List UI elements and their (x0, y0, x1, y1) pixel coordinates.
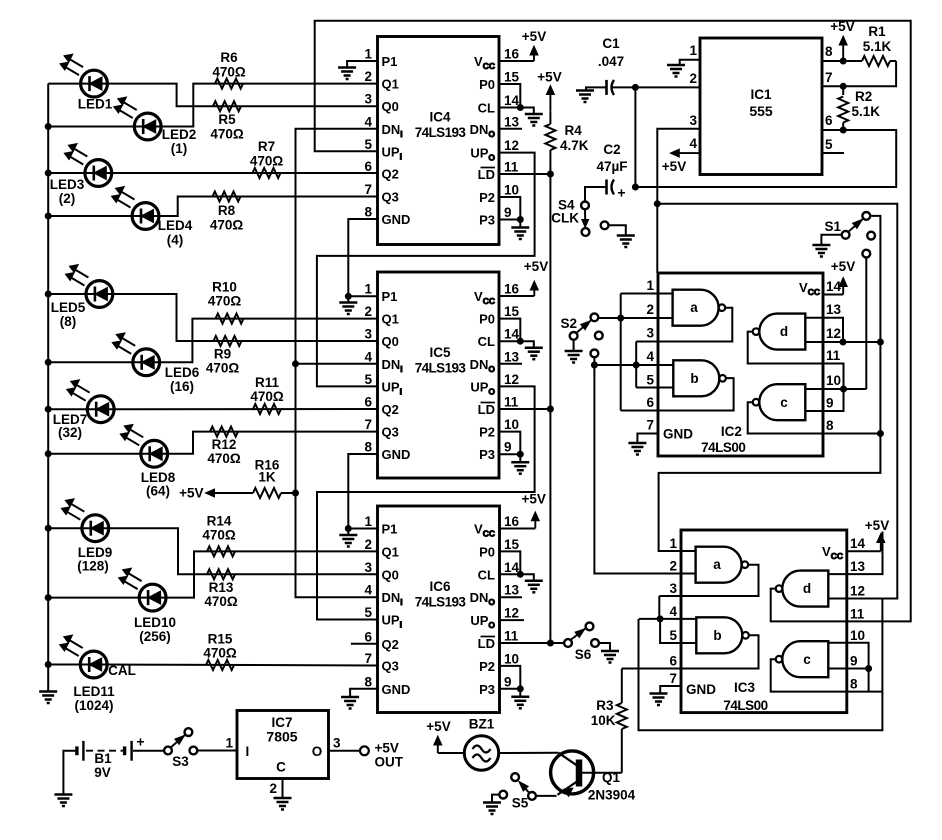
wire IC2 pin8 line (823, 433, 880, 435)
svg-text:5: 5 (825, 137, 833, 152)
svg-text:P0: P0 (479, 312, 495, 327)
svg-text:GND: GND (382, 682, 411, 697)
svg-text:P1: P1 (382, 54, 398, 69)
svg-text:GND: GND (686, 682, 716, 697)
svg-text:14: 14 (504, 93, 520, 108)
wire feedback net top (IC3 pin11 to IC4 pin5) (315, 21, 911, 622)
IC1 555 box (700, 38, 822, 175)
svg-text:10: 10 (504, 651, 519, 666)
svg-text:CLK: CLK (551, 211, 579, 226)
svg-text:74LS00: 74LS00 (723, 698, 767, 713)
IC5 pin 4 label (364, 349, 402, 374)
IC6 pin 12 label (470, 606, 519, 631)
ground IC5 pin14 (520, 341, 543, 359)
junction IC2 pin12-13 (840, 339, 846, 345)
svg-text:O: O (312, 744, 323, 759)
svg-text:+5V: +5V (830, 19, 854, 34)
wire IC2 gate-d inputs (805, 318, 823, 342)
switch S6 (564, 623, 599, 663)
IC2 pin 8 numeral (826, 418, 834, 433)
wire IC3 pin14 +5V (847, 518, 889, 551)
svg-text:13: 13 (826, 302, 842, 317)
svg-text:UPI: UPI (382, 613, 402, 630)
svg-text:P2: P2 (479, 659, 495, 674)
LED LED10 (119, 568, 176, 644)
IC5 pin 6 label (364, 395, 398, 418)
IC5 pin 12 label (470, 372, 519, 397)
IC5 pin 8 label (364, 440, 410, 463)
NAND gate IC2-a (673, 290, 726, 326)
svg-text:LD: LD (478, 636, 495, 651)
IC2 pin 9 numeral (826, 396, 834, 411)
IC4 pin 14 label (478, 93, 520, 116)
svg-text:R2: R2 (855, 89, 872, 104)
svg-text:2: 2 (364, 304, 372, 319)
IC2 pin 3 numeral (646, 326, 654, 341)
wire IC3 gate-b output to pin6 (622, 635, 759, 668)
resistor R14 (202, 514, 236, 557)
junction IC2 pin10 (841, 386, 847, 392)
resistor R3 10K (591, 669, 627, 773)
wire IC3 pin8 wrap to R3 net (639, 619, 883, 730)
wire battery positive to S3 (133, 750, 164, 752)
+5V arrow IC5 Vcc (499, 259, 548, 296)
wire LED11 to bus (48, 664, 80, 666)
IC3 pin 1 numeral (669, 536, 677, 551)
wire R10 (160, 319, 378, 363)
svg-text:13: 13 (504, 349, 520, 364)
svg-text:47µF: 47µF (596, 159, 627, 174)
wire IC2 pin12 line (823, 341, 880, 343)
svg-text:BZ1: BZ1 (469, 717, 495, 732)
wire IC4 UPo to IC5 UPi (317, 153, 535, 387)
svg-text:1: 1 (689, 43, 697, 58)
svg-text:IC2: IC2 (721, 424, 742, 439)
IC6 pin 9 label (479, 674, 511, 697)
svg-text:6: 6 (364, 395, 372, 410)
wire IC6 P0 to CL (499, 551, 520, 574)
IC5 pin 7 label (364, 417, 398, 440)
junction IC1 pin7 (840, 83, 846, 89)
wire LD chain (499, 174, 564, 643)
junction IC1 pin6 (840, 127, 846, 133)
svg-text:74LS193: 74LS193 (415, 125, 467, 140)
IC2 pin 11 numeral (826, 348, 841, 363)
IC2 pin 13 numeral (826, 302, 842, 317)
IC2 pin 12 numeral (826, 326, 841, 341)
IC6 pin 15 label (479, 537, 519, 560)
svg-text:10: 10 (504, 183, 519, 198)
svg-text:P1: P1 (382, 289, 398, 304)
svg-text:16: 16 (504, 514, 520, 529)
svg-text:1: 1 (364, 514, 372, 529)
capacitor C2 47uF (596, 142, 627, 201)
svg-text:Q0: Q0 (382, 334, 399, 349)
wire IC2 pin1-pin6 tie (620, 294, 622, 411)
junction IC1 pin3 branch (654, 201, 660, 207)
svg-text:UPI: UPI (382, 379, 402, 396)
resistor R11 (250, 375, 284, 414)
junction on LED bus y=294 (45, 291, 51, 297)
junction LD IC5 (547, 406, 553, 412)
wire IC2 pin13 to pin12 (823, 318, 843, 342)
junction S1 net at IC2 pin8 (877, 431, 883, 437)
wire IC2 gate-c output to pin8 (748, 402, 823, 433)
junction IC2 pin4 tie (633, 362, 639, 368)
svg-text:1: 1 (646, 278, 654, 293)
wire IC2 pin11 to pin10 (823, 364, 844, 390)
svg-text:555: 555 (749, 103, 773, 119)
svg-text:R6: R6 (220, 50, 238, 65)
svg-text:10: 10 (504, 417, 519, 432)
wire IC1 pin3 output (657, 129, 700, 273)
IC4 pin 7 label (364, 182, 398, 205)
wire IC2 pin3 to pin5 tie (636, 342, 673, 388)
junction on LED bus y=528.2 (45, 525, 51, 531)
IC6 pin 4 label (364, 583, 402, 608)
svg-text:+5V: +5V (537, 70, 561, 85)
svg-text:2: 2 (269, 781, 277, 796)
IC6 pin 10 label (479, 651, 519, 674)
svg-text:11: 11 (504, 160, 519, 175)
wire IC5 P2 to P3 (499, 432, 520, 455)
svg-text:Q3: Q3 (382, 425, 399, 440)
svg-text:13: 13 (850, 559, 866, 574)
svg-text:+: + (136, 734, 144, 750)
svg-text:4: 4 (364, 583, 372, 598)
wire LED4 to bus (48, 215, 132, 217)
resistor R13 (204, 569, 238, 609)
NAND gate IC3-d (776, 571, 829, 607)
svg-text:10: 10 (850, 628, 865, 643)
NAND gate IC2-d (753, 314, 806, 350)
IC2 pin 1 numeral (646, 278, 654, 293)
svg-text:LD: LD (478, 402, 495, 417)
wire LED3 to bus (48, 172, 85, 174)
switch S4 CLK (551, 198, 589, 236)
svg-text:12: 12 (826, 326, 841, 341)
wire S2 lower throw (593, 357, 595, 365)
IC4 pin 10 label (479, 183, 519, 206)
wire R11 (114, 408, 377, 410)
ground S2 (565, 340, 583, 363)
resistor R1 5.1K (843, 24, 896, 66)
svg-text:c: c (780, 395, 788, 410)
svg-text:.047: .047 (598, 54, 624, 69)
wire IC3 pin1 line (659, 550, 696, 552)
wire IC5 P0 to CL (499, 319, 520, 342)
svg-text:S3: S3 (172, 754, 189, 769)
svg-text:1: 1 (669, 536, 677, 551)
LED LED1 (60, 54, 113, 111)
svg-text:3: 3 (669, 581, 677, 596)
svg-text:C: C (276, 760, 286, 775)
junction on LED bus y=216 (45, 213, 51, 219)
IC5 pin 3 label (364, 327, 398, 350)
svg-text:2: 2 (646, 302, 654, 317)
IC5 pin 5 label (364, 372, 401, 397)
wire IC2 gate-c inputs (805, 389, 823, 411)
wire IC2 pin1 line (621, 293, 673, 295)
svg-text:74LS00: 74LS00 (701, 440, 745, 455)
svg-text:LED3: LED3 (50, 177, 85, 192)
svg-text:CL: CL (478, 334, 495, 349)
svg-text:LED4: LED4 (158, 218, 193, 233)
wire IC2 pin10 line to S1 (823, 388, 866, 390)
svg-text:(128): (128) (77, 559, 109, 574)
svg-text:LED6: LED6 (165, 365, 200, 380)
switch S1 (824, 212, 875, 258)
junction IC4 pin9 (517, 217, 523, 223)
wire IC4 GND to IC5 P1 (348, 219, 377, 296)
wire R15 (107, 665, 377, 666)
svg-text:9: 9 (504, 205, 512, 220)
IC5 pin 10 label (479, 417, 519, 440)
IC5 pin 11 label (478, 395, 519, 418)
ground IC2 pin7 (628, 434, 658, 455)
svg-text:+5V: +5V (865, 518, 889, 533)
wire S5 to ground (492, 795, 499, 802)
svg-text:LED2: LED2 (162, 127, 197, 142)
IC2 74LS00 box (658, 273, 823, 456)
stub IC4 DNo pin13 (499, 128, 522, 130)
svg-text:P3: P3 (479, 682, 495, 697)
svg-text:9V: 9V (94, 765, 111, 780)
IC7 pin1 numeral (225, 736, 233, 751)
junction DN chain at IC5 pin4 (293, 361, 299, 367)
IC1 pin 7 numeral (825, 70, 833, 85)
svg-text:10: 10 (826, 373, 841, 388)
svg-text:8: 8 (364, 205, 372, 220)
svg-text:3: 3 (364, 327, 372, 342)
IC6 pin 16 label (474, 514, 519, 539)
svg-text:11: 11 (504, 629, 519, 644)
IC4 pin 5 label (364, 137, 401, 162)
svg-text:4.7K: 4.7K (560, 138, 589, 153)
junction on LED bus y=362.3 (45, 359, 51, 365)
svg-text:S1: S1 (824, 219, 841, 234)
resistor R5 (210, 101, 244, 141)
svg-text:+5V: +5V (522, 29, 546, 44)
IC3 pin 3 numeral (669, 581, 677, 596)
svg-text:R4: R4 (565, 123, 583, 138)
svg-text:+: + (617, 185, 625, 201)
NAND gate IC3-b (696, 617, 749, 653)
battery B1 9V (77, 734, 145, 781)
IC3 pin 9 numeral (850, 654, 858, 669)
svg-text:R1: R1 (868, 24, 886, 39)
svg-text:+5V: +5V (524, 259, 548, 274)
stub IC5 DNo pin13 (499, 363, 522, 365)
ground S6 (599, 643, 619, 663)
resistor R12 (207, 427, 241, 466)
wire S1 lower throw to IC2 pin10 (865, 258, 867, 390)
junction S1 net at IC2 pin12 (877, 339, 883, 345)
IC5 pin 9 label (479, 440, 511, 463)
IC3 pin 7 numeral (669, 671, 677, 686)
svg-text:B1: B1 (94, 751, 112, 766)
svg-text:16: 16 (504, 282, 520, 297)
svg-text:5: 5 (646, 373, 654, 388)
buzzer BZ1 (464, 717, 498, 771)
svg-text:LD: LD (478, 167, 495, 182)
IC3 pin 12 numeral (850, 584, 865, 599)
junction on LED bus y=126.5 (45, 124, 51, 130)
junction C2 net (632, 184, 638, 190)
stub IC6 pin6 Q2 (351, 643, 378, 645)
junction on LED bus y=409.2 (45, 406, 51, 412)
svg-text:1: 1 (225, 736, 233, 751)
NAND gate IC2-b (673, 360, 726, 396)
IC1 pin 1 numeral (689, 43, 697, 58)
svg-text:5.1K: 5.1K (863, 39, 892, 54)
wire IC3 pin3 to pin4 tie (658, 596, 660, 619)
svg-text:(2): (2) (59, 191, 76, 206)
wire IC3 gate-d output to pin11 (771, 589, 847, 622)
svg-text:4: 4 (669, 604, 677, 619)
svg-text:1: 1 (364, 282, 372, 297)
svg-text:13: 13 (504, 583, 520, 598)
+5V arrow IC4 Vcc (499, 29, 546, 61)
resistor R16 1K (253, 458, 296, 499)
wire S1 top throw to latch (870, 216, 880, 434)
svg-text:S5: S5 (512, 796, 529, 811)
svg-text:11: 11 (850, 606, 865, 621)
wire IC2 pin2 line (598, 317, 673, 319)
svg-text:P3: P3 (479, 447, 495, 462)
LED LED3 (50, 144, 112, 206)
terminal +5V OUT (360, 741, 404, 770)
wire IC2 gate-a output to pin3 (636, 308, 732, 342)
svg-text:I: I (246, 744, 250, 759)
svg-text:IC6: IC6 (429, 579, 451, 594)
wire IC3 pin4 line (639, 618, 696, 620)
svg-text:11: 11 (826, 348, 841, 363)
svg-text:470Ω: 470Ω (202, 528, 236, 543)
wire IC3 pin8 cross-couple (847, 599, 883, 692)
junction IC6 pin1 (345, 526, 351, 532)
ground IC4 pin14 (520, 108, 543, 126)
wire IC3 gate-d inputs (828, 574, 847, 598)
IC1 pin 4 numeral (689, 136, 697, 151)
junction S2 lower net (591, 362, 597, 368)
svg-text:b: b (713, 628, 721, 643)
junction IC5 pin14 (517, 338, 523, 344)
svg-text:UPI: UPI (382, 144, 402, 161)
+5V arrow for R4 (537, 70, 561, 112)
svg-text:6: 6 (669, 654, 677, 669)
svg-text:R8: R8 (218, 203, 236, 218)
svg-text:P3: P3 (479, 213, 495, 228)
IC3 pin 10 numeral (850, 628, 865, 643)
LED LED2 (114, 97, 197, 156)
svg-text:Q0: Q0 (382, 567, 399, 582)
svg-text:R10: R10 (212, 280, 237, 295)
svg-text:470Ω: 470Ω (210, 127, 244, 142)
svg-text:OUT: OUT (375, 755, 404, 770)
IC3 pin 14 numeral (850, 536, 866, 551)
junction on LED bus y=453.8 (45, 451, 51, 457)
wire R6 (161, 84, 377, 127)
svg-text:8: 8 (825, 44, 833, 59)
svg-text:8: 8 (364, 674, 372, 689)
svg-text:9: 9 (504, 440, 512, 455)
IC6 pin 13 label (470, 583, 520, 608)
NAND gate IC3-a (696, 547, 749, 583)
wire R9 (113, 294, 378, 341)
resistor R8 (210, 192, 244, 233)
wire IC3 gate-c inputs (828, 643, 847, 669)
wire +5V to BZ1 (438, 752, 465, 754)
svg-text:3: 3 (689, 113, 697, 128)
resistor R10 (208, 280, 244, 324)
resistor R7 (250, 139, 284, 178)
IC2 pin 6 numeral (646, 395, 654, 410)
svg-text:LED10: LED10 (134, 615, 176, 630)
svg-text:7: 7 (364, 182, 372, 197)
svg-text:6: 6 (646, 395, 654, 410)
IC4 pin 9 label (479, 205, 511, 228)
IC6 pin 2 label (364, 537, 398, 560)
wire IC5 UPo to IC6 UPi (317, 386, 535, 619)
junction IC5 pin1 (345, 293, 351, 299)
svg-text:a: a (690, 300, 698, 315)
svg-text:(64): (64) (146, 484, 170, 499)
ground S4 (617, 236, 635, 248)
svg-text:3: 3 (364, 92, 372, 107)
LED LED6 (112, 333, 200, 394)
IC2 pin 10 numeral (826, 373, 841, 388)
wire 555 output to IC3 pin12 (657, 204, 897, 599)
LED LED7 (53, 380, 114, 440)
svg-text:R7: R7 (258, 139, 275, 154)
IC1 pin 2 numeral (689, 71, 697, 86)
LED LED4 (112, 187, 193, 248)
svg-text:S6: S6 (575, 647, 592, 662)
IC4 pin 1 label (364, 47, 397, 70)
LED LED9 (61, 499, 112, 574)
wire IC1 pin8 +5V (822, 19, 855, 61)
wire R14 (166, 551, 377, 597)
IC4 pin 11 label (478, 160, 519, 183)
svg-text:IC1: IC1 (750, 87, 772, 102)
IC5 pin 13 label (470, 349, 520, 374)
NAND gate IC3-c (776, 641, 829, 677)
IC2 pin 14 numeral (826, 279, 842, 294)
svg-text:IC4: IC4 (429, 110, 451, 125)
svg-text:+5V: +5V (179, 486, 203, 501)
junction IC3 pin3-4-5 (657, 616, 663, 622)
svg-text:12: 12 (850, 584, 865, 599)
svg-text:7: 7 (825, 70, 833, 85)
wire C2 to S4 (585, 187, 607, 201)
transistor Q1 2N3904 (551, 751, 636, 803)
ground IC6 pin1 (339, 529, 357, 547)
switch S2 (560, 313, 602, 357)
svg-text:+5V: +5V (375, 741, 399, 756)
IC7 pin2 ground (269, 779, 291, 810)
ground IC4 pin9 (511, 220, 529, 240)
wire IC3 pin10 to pin9 (847, 643, 869, 692)
junction LD IC6 (547, 640, 553, 646)
svg-text:Q1: Q1 (382, 544, 399, 559)
svg-text:74LS193: 74LS193 (415, 595, 467, 610)
svg-text:2: 2 (364, 69, 372, 84)
svg-text:R9: R9 (214, 347, 231, 362)
svg-text:Q2: Q2 (382, 402, 399, 417)
+5V arrow for R16 (179, 486, 253, 501)
svg-text:(4): (4) (167, 233, 184, 248)
